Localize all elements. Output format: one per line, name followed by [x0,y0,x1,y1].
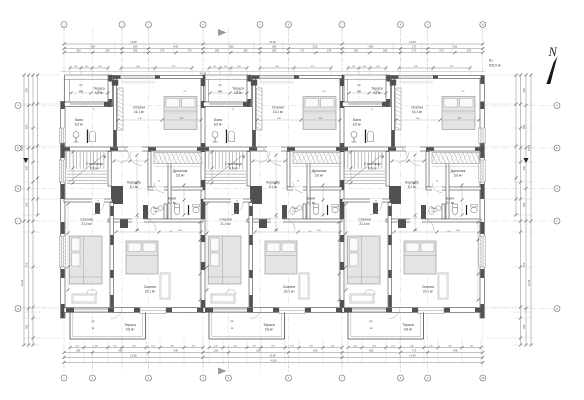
svg-text:Стълбище: Стълбище [364,162,381,166]
right dimension line 1 [530,75,532,345]
svg-text:Стълбище: Стълбище [225,162,242,166]
svg-text:13,86: 13,86 [269,354,276,358]
svg-text:365: 365 [522,324,526,329]
unit 3 wc wall [442,204,445,219]
svg-text:N: N [548,45,558,59]
bottom dimension line 3 [64,357,483,359]
unit 1 bath2 wall [168,159,171,222]
svg-text:305: 305 [25,87,29,92]
grid bubble top 6 [286,22,292,28]
svg-text:Коридор: Коридор [266,181,280,185]
unit 1 wardrobe 1 [118,88,124,130]
unit 3 bottom wall [342,308,481,313]
left level marker triangle [23,158,28,163]
unit 3 bedroom1 left wall [392,79,395,148]
unit 3 closet wall [426,152,429,188]
svg-text:3,1 м²: 3,1 м² [292,210,298,213]
right dimension line 4 [515,75,517,215]
svg-text:290: 290 [105,49,110,53]
unit 2 bedroom2 top wall [203,199,251,202]
svg-text:275: 275 [300,49,305,53]
svg-text:6,6 м²: 6,6 м² [90,167,99,171]
bottom dimension line 2 [64,352,483,354]
unit 2 bath 1 fixtures [228,131,234,142]
svg-text:290: 290 [76,49,81,53]
grid bubble right Б [554,145,560,151]
bottom dimension line 4 [64,362,483,364]
svg-text:16,1 м²: 16,1 м² [273,110,283,114]
svg-text:Б: Б [556,146,558,150]
section marker top [218,29,227,36]
unit 2 door arcs [267,152,281,166]
svg-text:285: 285 [383,49,388,53]
unit 2 bedroom divider wall [249,203,253,308]
unit 2 north window band [204,102,252,107]
unit 2 bath2 wall [307,159,310,222]
svg-text:305: 305 [522,87,526,92]
unit 1 bottom terrace parapet [69,313,71,340]
svg-text:5,6 м²: 5,6 м² [176,174,185,178]
unit 3 terrace parapet [343,74,391,76]
svg-text:280: 280 [215,49,220,53]
unit 3 window axis [358,72,360,107]
unit 1 terrace right wall [108,76,113,107]
unit 3 bath2 wall [446,159,449,222]
svg-text:405: 405 [522,165,526,170]
exterior wall left [61,102,66,319]
svg-text:3,8 м²: 3,8 м² [95,91,104,95]
unit 2 dresser 2 [211,294,235,303]
svg-text:14,08: 14,08 [409,354,416,358]
unit 2 wc wall [303,204,306,219]
left dimension line 1 [23,75,25,345]
grid bubble bottom 3 [146,375,152,381]
unit 2 bed 3 [265,241,297,274]
svg-text:Коридор: Коридор [405,181,419,185]
unit 2 bottom terrace parapet [208,313,210,340]
unit 3 bottom terrace parapet [347,313,349,340]
svg-text:12,40: 12,40 [527,279,531,286]
svg-text:325: 325 [25,202,29,207]
svg-text:Спалня: Спалня [283,285,295,289]
unit 1 entry steps [172,312,184,314]
unit 2 interior dims [275,155,277,230]
grid bubble right Г [554,218,560,224]
svg-text:Баня: Баня [75,118,83,122]
unit 2 bath 2 fixtures [313,207,319,215]
bottom witness lines [69,339,71,364]
svg-text:А: А [17,104,19,108]
svg-text:285: 285 [243,49,248,53]
svg-text:21,4 м²: 21,4 м² [220,222,230,226]
svg-text:41,80: 41,80 [270,359,277,363]
svg-text:Стълбище: Стълбище [86,162,103,166]
svg-text:21,4 м²: 21,4 м² [81,222,91,226]
svg-text:285: 285 [272,49,277,53]
unit 3 wc fixtures [429,207,434,215]
grid bubble left Д [15,306,21,312]
unit 3 desk 3 [438,273,448,299]
grid bubble top 8 [398,22,404,28]
svg-text:Спалня: Спалня [358,218,370,222]
svg-text:Баня: Баня [307,197,315,201]
svg-text:Спалня: Спалня [272,106,284,110]
grid bubble top 2 [119,22,125,28]
unit 1 side table 2 [87,290,97,296]
grid bubble left Б [15,145,21,151]
right dimension line 3 [520,75,522,345]
top dimension line 5 [70,67,108,69]
svg-text:Д: Д [556,307,558,311]
svg-text:272: 272 [412,45,417,49]
svg-text:585: 585 [369,349,374,353]
unit 1 stairs [66,152,68,169]
svg-text:14,55: 14,55 [527,144,531,151]
unit 3 stairs [344,152,346,169]
svg-text:272: 272 [412,49,417,53]
svg-text:13,86: 13,86 [130,354,137,358]
grid bubble bottom 2 [90,375,96,381]
svg-text:20,1 м²: 20,1 м² [423,290,433,294]
svg-text:Спалня: Спалня [80,218,92,222]
svg-text:5,1 м²: 5,1 м² [168,201,177,205]
unit 1 bed 3 [126,241,158,274]
svg-text:580: 580 [91,45,96,49]
unit 2 stairs [205,152,207,169]
svg-text:ПР: ПР [230,321,234,324]
svg-text:Дрешник: Дрешник [451,169,466,173]
svg-text:ПР: ПР [369,321,373,324]
unit 1 terrace parapet [65,74,113,76]
unit 2 bedroom1 left wall [253,79,256,148]
svg-text:265: 265 [133,45,138,49]
svg-text:Д: Д [17,307,19,311]
svg-text:5,1 м²: 5,1 м² [446,201,455,205]
unit 1 interior dims [136,155,138,230]
unit 1 window axis [80,72,82,107]
unit 1 mid wall (wall C) [64,147,203,151]
unit 3 interior dims [414,155,416,230]
svg-text:Дрешник: Дрешник [173,169,188,173]
unit 1 bed 1 [164,97,197,130]
grid bubble top 9 [425,22,431,28]
left dimension line 4 [37,75,39,215]
grid bubble bottom 5 [226,375,232,381]
svg-text:545: 545 [174,349,179,353]
unit 3 bed 2 [348,236,381,284]
unit 2 closet bottom wall [287,187,342,190]
unit 2 bed 1 [303,97,336,130]
unit 1 wc wall [164,204,167,219]
svg-text:272: 272 [412,349,417,353]
unit 2 wardrobe 1 [257,88,263,130]
unit 3 dresser 2 [350,294,374,303]
svg-text:365: 365 [25,324,29,329]
svg-text:285: 285 [272,45,277,49]
unit 1 bed 2 [70,236,103,284]
svg-text:6,6 м²: 6,6 м² [368,167,377,171]
unit 2 closet wardrobe [293,153,340,164]
top dimension line 3 [64,52,483,54]
svg-text:Баня: Баня [168,197,176,201]
svg-text:565: 565 [229,45,234,49]
unit 1 desk 3 [160,273,170,299]
svg-text:20,1 м²: 20,1 м² [284,290,294,294]
unit 1 hall bottom wall [108,219,203,222]
unit 3 closet bottom wall [426,187,481,190]
svg-text:551: 551 [453,45,458,49]
unit 3 bedroom2 top wall [342,199,390,202]
unit 2 top wall [252,76,343,79]
svg-text:535: 535 [313,349,318,353]
grid bubble left Г [15,218,21,224]
unit 3 wardrobe 1 [396,88,402,130]
grid bubble bottom 4 [200,375,206,381]
svg-text:3,1 м²: 3,1 м² [153,210,159,213]
unit 2 wc fixtures [290,207,295,215]
svg-text:13,86: 13,86 [130,40,137,44]
svg-text:5,6 м²: 5,6 м² [454,174,463,178]
left witness lines [22,74,41,76]
unit 3 bedroom sill lines [399,81,433,83]
bottom dimension line 1 [70,347,203,349]
svg-text:14,55: 14,55 [20,144,24,151]
svg-text:285: 285 [76,349,81,353]
unit 2 hall bottom wall [247,219,342,222]
unit 1 wc fixtures [151,207,156,215]
unit 1 bath 1 fixtures [89,131,95,142]
unit 2 terrace parapet [204,74,252,76]
unit 1 bedroom1 left wall [114,79,117,148]
svg-text:В: В [556,187,558,191]
svg-text:255: 255 [214,349,219,353]
unit 1 bedroom sill lines [121,81,155,83]
svg-text:5,6 м²: 5,6 м² [315,174,324,178]
unit 1 bedroom divider wall [110,203,114,308]
svg-text:5,1 м²: 5,1 м² [269,185,278,189]
unit 2 entry steps [311,312,323,314]
svg-text:Баня: Баня [214,118,222,122]
unit 3 side table 2 [365,290,375,296]
svg-text:875: 875 [522,262,526,267]
unit 3 bed 3 [404,241,436,274]
grid bubble top 10 [480,22,486,28]
unit 3 mid wall (wall C) [342,147,481,151]
svg-text:5,1 м²: 5,1 м² [408,185,417,189]
left dimension line 2 [28,75,30,345]
svg-text:560: 560 [118,349,123,353]
unit 1 bedroom2 top wall [64,199,112,202]
svg-text:Спалня: Спалня [411,106,423,110]
svg-text:3,8 м²: 3,8 м² [373,91,382,95]
svg-text:3,8 м²: 3,8 м² [234,91,243,95]
svg-text:270: 270 [187,49,192,53]
unit 2 window axis [219,72,221,107]
north arrow [547,45,558,84]
svg-text:6,6 м²: 6,6 м² [229,167,238,171]
svg-text:260: 260 [354,49,359,53]
svg-text:Коридор: Коридор [127,181,141,185]
grid bubble top 5 [257,22,263,28]
unit 1 bath 2 fixtures [174,207,180,215]
roof overhang line [61,71,486,73]
svg-text:600: 600 [256,349,261,353]
unit 3 entry steps [450,312,462,314]
svg-text:16,1 м²: 16,1 м² [412,110,422,114]
grid bubble top 7 [339,22,345,28]
unit 3 stair pier [389,186,401,204]
unit 2 mid wall (wall C) [203,147,342,151]
grid bubble left А [15,103,21,109]
grid bubble bottom 6 [286,375,292,381]
grid bubble bottom 9 [425,375,431,381]
svg-text:9,8 м²: 9,8 м² [126,328,135,332]
svg-text:16,1 м²: 16,1 м² [134,110,144,114]
unit 2 bed 2 [209,236,242,284]
grid bubble right А [554,103,560,109]
unit 1 dresser 2 [72,294,96,303]
svg-text:14,08: 14,08 [409,40,416,44]
grid bubble top 4 [200,22,206,28]
unit 1 closet wardrobe [154,153,201,164]
svg-text:Спалня: Спалня [422,285,434,289]
grid bubble bottom 1 [61,375,67,381]
grid bubble left В [15,186,21,192]
right witness lines [513,74,533,76]
svg-text:Баня: Баня [353,118,361,122]
svg-text:875: 875 [25,262,29,267]
svg-text:6,5 м²: 6,5 м² [353,123,362,127]
unit 2 stair pier [250,186,262,204]
svg-text:5,1 м²: 5,1 м² [307,201,316,205]
svg-text:Баня: Баня [446,197,454,201]
section marker bottom [218,368,227,375]
svg-text:6,5 м²: 6,5 м² [75,123,84,127]
unit 2 stair wall [247,152,250,187]
unit 3 bed 1 [442,97,475,130]
svg-text:6,5 м²: 6,5 м² [214,123,223,127]
left dimension line 3 [32,75,34,345]
svg-text:545: 545 [174,45,179,49]
svg-text:405: 405 [25,165,29,170]
unit 1 stair pier [111,186,123,204]
svg-text:425: 425 [522,124,526,129]
svg-text:9,8 м²: 9,8 м² [404,328,413,332]
svg-text:Тераса: Тераса [93,87,105,91]
unit 3 bath 1 fixtures [367,131,373,142]
unit 3 bath 2 fixtures [452,207,458,215]
svg-text:5,1 м²: 5,1 м² [130,185,139,189]
grid bubble right Д [554,306,560,312]
right dimension line 2 [525,75,527,345]
svg-text:12,40: 12,40 [20,279,24,286]
top dimension line 2 [64,48,483,50]
grid bubble top 3 [146,22,152,28]
grid bubble right В [554,186,560,192]
unit 3 top wall [391,76,482,79]
svg-text:Б: Б [17,146,19,150]
grid bubble bottom 10 [480,375,486,381]
svg-text:275: 275 [327,49,332,53]
svg-text:548: 548 [453,349,458,353]
svg-text:Спалня: Спалня [133,106,145,110]
unit 1 door arcs [128,152,142,166]
svg-text:585: 585 [369,45,374,49]
svg-text:20,1 м²: 20,1 м² [145,290,155,294]
party wall 1 [201,76,205,313]
unit 3 north window band [343,102,391,107]
svg-text:275: 275 [160,49,165,53]
svg-text:ПР: ПР [91,321,95,324]
unit 2 terrace right wall [247,76,252,107]
svg-text:Дрешник: Дрешник [312,169,327,173]
svg-text:Баня: Баня [431,208,437,210]
svg-text:Тераса: Тераса [402,323,414,327]
svg-text:21,4 м²: 21,4 м² [359,222,369,226]
unit 1 stair wall [108,152,111,187]
svg-text:А: А [556,104,558,108]
grid bubble top 1 [61,22,67,28]
unit 1 closet bottom wall [148,187,203,190]
svg-text:273: 273 [439,49,444,53]
top dimension line 1 [64,43,483,45]
horizontal grid lines [22,105,556,107]
svg-text:9,8 м²: 9,8 м² [265,328,274,332]
svg-text:Баня: Баня [153,208,159,210]
svg-text:278: 278 [467,49,472,53]
unit 2 bedroom sill lines [260,81,294,83]
svg-text:В: В [17,187,19,191]
svg-text:3,1 м²: 3,1 м² [431,210,437,213]
grid bubble bottom 7 [339,375,345,381]
svg-text:503,5 м²: 503,5 м² [489,64,501,68]
unit 1 top wall [113,76,204,79]
svg-text:265: 265 [133,49,138,53]
unit 3 door arcs [406,152,420,166]
svg-text:Тераса: Тераса [124,323,136,327]
unit 3 stair wall [386,152,389,187]
top witness lines [65,42,67,55]
top extension grid lines [63,28,65,74]
svg-text:13,86: 13,86 [269,40,276,44]
svg-text:Тераса: Тераса [232,87,244,91]
grid bubble bottom 8 [398,375,404,381]
svg-text:425: 425 [25,124,29,129]
unit 2 desk 3 [299,273,309,299]
right level marker triangle [523,158,528,163]
svg-text:Спалня: Спалня [219,218,231,222]
unit 3 terrace right wall [386,76,391,107]
unit 1 north window band [65,102,113,107]
bottom extension grid lines [63,345,65,372]
svg-text:Тераса: Тераса [263,323,275,327]
unit 2 closet wall [287,152,290,188]
unit 3 closet wardrobe [432,153,479,164]
exterior wall right [480,76,485,319]
svg-text:325: 325 [522,202,526,207]
unit 2 bottom wall [203,308,342,313]
unit 1 closet wall [148,152,151,188]
vertical grid lines [63,28,65,372]
svg-text:Баня: Баня [292,208,298,210]
svg-text:Тераса: Тераса [371,87,383,91]
svg-text:535: 535 [313,45,318,49]
unit 3 hall bottom wall [386,219,481,222]
unit 3 bedroom divider wall [388,203,392,308]
party wall 2 [340,76,344,313]
unit 2 side table 2 [226,290,236,296]
svg-text:Спалня: Спалня [144,285,156,289]
